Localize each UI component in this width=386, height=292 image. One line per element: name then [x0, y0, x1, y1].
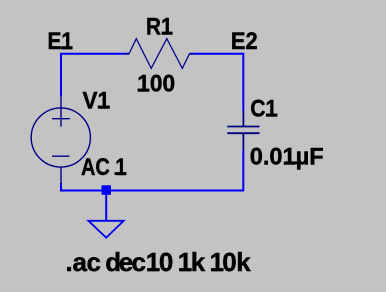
svg-text:AC 1: AC 1: [81, 154, 127, 181]
voltage source V1: [31, 96, 90, 184]
wire left vertical lower: [60, 183, 62, 191]
svg-text:0.01µF: 0.01µF: [250, 143, 324, 170]
resistor R1: [124, 39, 194, 69]
wire right vertical lower: [242, 150, 244, 191]
V1 top lead: [60, 96, 62, 127]
wire bottom: [60, 190, 244, 192]
C1 top plate: [227, 126, 259, 128]
capacitor C1: [227, 111, 259, 150]
svg-text:.acdec101k10k: .acdec101k10k: [66, 247, 252, 277]
V1 minus sign bar: [52, 155, 70, 157]
wire top (resistor to E2 corner): [190, 53, 243, 55]
wire left vertical: [60, 53, 62, 96]
serif feet for digit 1 glyphs (bitmap-font style): [61, 32, 297, 272]
svg-text:E1: E1: [48, 28, 74, 55]
svg-text:E2: E2: [231, 28, 258, 55]
wire right vertical upper: [242, 53, 244, 111]
C1 bottom plate: [227, 132, 259, 134]
svg-text:V1: V1: [83, 87, 111, 114]
svg-text:C1: C1: [250, 96, 277, 123]
ground stub wire: [105, 194, 107, 221]
V1 circle body: [31, 108, 90, 167]
wire top (E1 to resistor): [61, 53, 129, 54]
junction square at ground tap: [102, 185, 112, 195]
C1 top lead: [242, 111, 244, 127]
C1 bottom lead: [242, 133, 244, 150]
V1 plus sign bar: [52, 118, 70, 120]
svg-text:R1: R1: [146, 13, 173, 40]
ground symbol: [88, 221, 123, 238]
V1 bottom lead: [60, 167, 62, 184]
svg-text:100: 100: [137, 70, 175, 97]
